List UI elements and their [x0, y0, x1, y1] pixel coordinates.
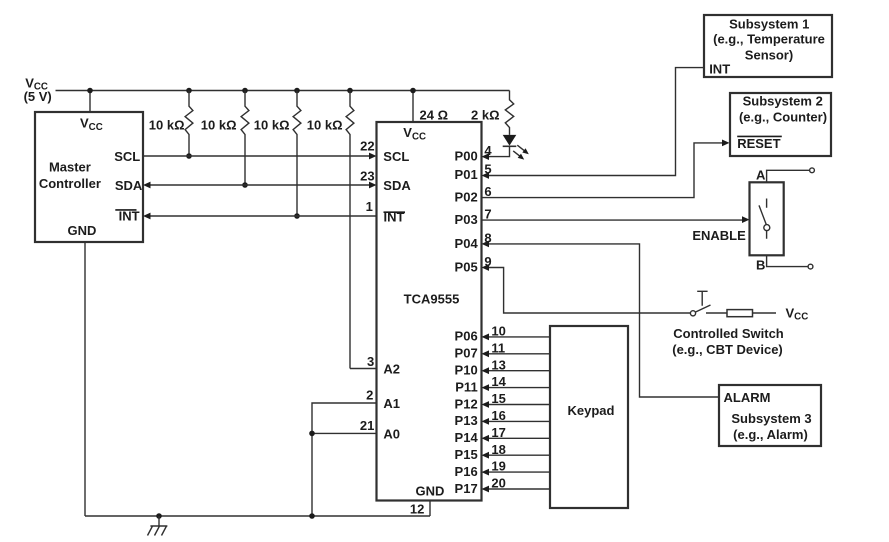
junction dot R1/SCL [186, 153, 192, 159]
svg-text:18: 18 [491, 442, 505, 457]
Master Controller box U2 [35, 112, 143, 242]
svg-text:P04: P04 [455, 236, 479, 251]
svg-text:INT: INT [709, 62, 730, 77]
junction dot rail/TCA VCC [410, 88, 416, 94]
svg-text:19: 19 [491, 459, 505, 474]
svg-text:Keypad: Keypad [568, 403, 615, 418]
controlled switch (pushbutton) [690, 311, 695, 316]
svg-text:Controlled Switch: Controlled Switch [673, 326, 784, 341]
svg-text:4: 4 [484, 143, 492, 158]
terminal B open circle [808, 264, 813, 269]
Subsystem 2 box [730, 93, 831, 156]
junction dot R2/SDA [242, 182, 248, 188]
svg-text:P12: P12 [455, 396, 478, 411]
wire P07 to keypad [487, 353, 550, 355]
Subsystem 1 box [704, 15, 832, 77]
svg-text:(e.g., CBT Device): (e.g., CBT Device) [672, 342, 783, 357]
resistor R2 10 kOhm (SDA pull-up) [241, 91, 249, 186]
svg-text:P06: P06 [455, 329, 478, 344]
wire TCA9555 GND pin 12 [429, 501, 431, 517]
svg-text:Master: Master [49, 159, 91, 174]
svg-text:SCL: SCL [383, 149, 409, 164]
LED D1 [503, 135, 517, 146]
svg-text:P03: P03 [455, 212, 478, 227]
svg-text:12: 12 [410, 501, 424, 516]
svg-text:ALARM: ALARM [724, 390, 771, 405]
wire terminal A [767, 170, 810, 182]
svg-text:22: 22 [360, 139, 374, 154]
wire terminal B [767, 255, 808, 266]
junction dot rail/R3 [294, 88, 300, 94]
TCA9555 IC box U1 [377, 122, 482, 501]
svg-text:B: B [756, 257, 765, 272]
svg-text:SDA: SDA [115, 178, 143, 193]
svg-text:6: 6 [484, 184, 491, 199]
svg-text:21: 21 [360, 418, 374, 433]
wire Master VCC drop [89, 91, 91, 113]
svg-text:15: 15 [491, 391, 505, 406]
junction dot A1-A0/ground rail [309, 513, 315, 519]
svg-text:A: A [756, 167, 766, 182]
wire P02 pin 6 to Subsystem 2 RESET [482, 143, 725, 198]
svg-text:10 kΩ: 10 kΩ [254, 118, 290, 133]
svg-text:8: 8 [484, 230, 491, 245]
svg-text:P16: P16 [455, 464, 478, 479]
svg-text:A2: A2 [383, 362, 400, 377]
svg-text:P13: P13 [455, 413, 478, 428]
svg-text:Controller: Controller [39, 176, 101, 191]
svg-text:Subsystem 3: Subsystem 3 [731, 411, 811, 426]
wire P05 pin 9 to controlled switch [487, 268, 691, 314]
svg-text:A1: A1 [383, 396, 400, 411]
svg-text:GND: GND [68, 223, 97, 238]
svg-text:24 Ω: 24 Ω [420, 107, 449, 122]
wire A0 (pin 21) [312, 432, 377, 434]
svg-text:P02: P02 [455, 190, 478, 205]
wire LED to P00 pin 4 [486, 146, 510, 156]
wire P15 to keypad [487, 454, 550, 456]
wire P17 to keypad [487, 488, 550, 490]
svg-text:SDA: SDA [383, 178, 411, 193]
resistor R3 10 kOhm (INT pull-up) [293, 91, 301, 217]
wire INT (TCA9555 pin 1 to Master) [149, 215, 377, 217]
junction dot A1/A0 [309, 431, 315, 437]
wire SDA (Master to TCA9555 pin 23) [149, 184, 371, 186]
resistor R6 (box style) [727, 310, 753, 317]
svg-text:(e.g., Temperature: (e.g., Temperature [713, 31, 825, 46]
wire TCA9555 VCC drop (24 ohm) [412, 91, 414, 123]
junction dot rail/R4 [347, 88, 353, 94]
svg-text:(e.g., Alarm): (e.g., Alarm) [733, 427, 808, 442]
svg-text:13: 13 [491, 357, 505, 372]
wire P06 to keypad [487, 336, 550, 338]
svg-text:RESET: RESET [737, 136, 780, 151]
wire ground rail [85, 515, 430, 517]
svg-text:17: 17 [491, 425, 505, 440]
svg-text:23: 23 [360, 168, 374, 183]
svg-text:16: 16 [491, 408, 505, 423]
wire A2 (pin 3) [350, 368, 377, 370]
Subsystem 3 ALARM box [719, 385, 821, 446]
svg-text:14: 14 [491, 374, 506, 389]
resistor R5 2 kOhm [505, 91, 513, 135]
resistor R4 10 kOhm (A2 pull-up) [346, 91, 354, 369]
svg-text:Sensor): Sensor) [745, 48, 793, 63]
Keypad box [550, 326, 628, 508]
svg-text:2: 2 [366, 388, 373, 403]
svg-text:A0: A0 [383, 426, 400, 441]
wire A1 (pin 2) to ground rail [312, 403, 377, 516]
junction dot R3/INT [294, 213, 300, 219]
svg-text:9: 9 [484, 254, 491, 269]
junction dot rail/R2 [242, 88, 248, 94]
svg-text:SCL: SCL [114, 149, 140, 164]
wire P16 to keypad [487, 471, 550, 473]
svg-text:P14: P14 [455, 430, 479, 445]
ground symbol (chassis) [148, 516, 168, 536]
svg-text:10 kΩ: 10 kΩ [149, 118, 185, 133]
svg-text:P00: P00 [455, 148, 478, 163]
svg-text:P10: P10 [455, 363, 478, 378]
svg-text:P01: P01 [455, 167, 478, 182]
svg-text:7: 7 [484, 206, 491, 221]
svg-text:(e.g., Counter): (e.g., Counter) [739, 110, 827, 125]
wire P11 to keypad [487, 387, 550, 389]
svg-text:P15: P15 [455, 447, 478, 462]
svg-text:3: 3 [367, 354, 374, 369]
svg-text:ENABLE: ENABLE [692, 228, 746, 243]
junction dot rail/Master VCC [87, 88, 93, 94]
svg-text:(5 V): (5 V) [24, 89, 52, 104]
wire P03 pin 7 to ENABLE switch [482, 219, 745, 221]
wire Master GND down [84, 242, 86, 516]
svg-text:5: 5 [484, 162, 491, 177]
wire P01 pin 5 to Subsystem 1 INT [487, 68, 704, 176]
svg-text:TCA9555: TCA9555 [404, 291, 460, 306]
svg-text:2 kΩ: 2 kΩ [471, 107, 500, 122]
resistor R1 10 kOhm (SCL pull-up) [185, 91, 193, 157]
svg-text:11: 11 [491, 340, 505, 355]
svg-text:P07: P07 [455, 346, 478, 361]
wire P14 to keypad [487, 437, 550, 439]
wire P12 to keypad [487, 404, 550, 406]
wire P04 pin 8 to Subsystem 3 [487, 244, 719, 397]
svg-text:1: 1 [366, 199, 373, 214]
svg-text:Subsystem 2: Subsystem 2 [743, 93, 823, 108]
svg-text:20: 20 [491, 476, 505, 491]
LED emission arrows [517, 145, 525, 151]
svg-text:10 kΩ: 10 kΩ [307, 118, 343, 133]
svg-text:P05: P05 [455, 259, 478, 274]
wire P13 to keypad [487, 420, 550, 422]
wire to VCC [753, 312, 777, 314]
net VCC rail [56, 90, 510, 92]
svg-text:GND: GND [416, 484, 445, 499]
switch contacts inside ENABLE box [759, 199, 767, 239]
svg-text:10: 10 [491, 324, 505, 339]
wire P10 to keypad [487, 370, 550, 372]
ENABLE switch box S1 [750, 182, 784, 255]
svg-text:Subsystem 1: Subsystem 1 [729, 17, 809, 32]
junction dot rail/R1 [186, 88, 192, 94]
svg-text:P17: P17 [455, 481, 478, 496]
junction dot ground symbol tap [156, 513, 162, 519]
wire SCL (Master to TCA9555 pin 22) [143, 155, 371, 157]
svg-text:10 kΩ: 10 kΩ [201, 118, 237, 133]
terminal A open circle [810, 168, 815, 173]
svg-text:P11: P11 [455, 379, 477, 394]
